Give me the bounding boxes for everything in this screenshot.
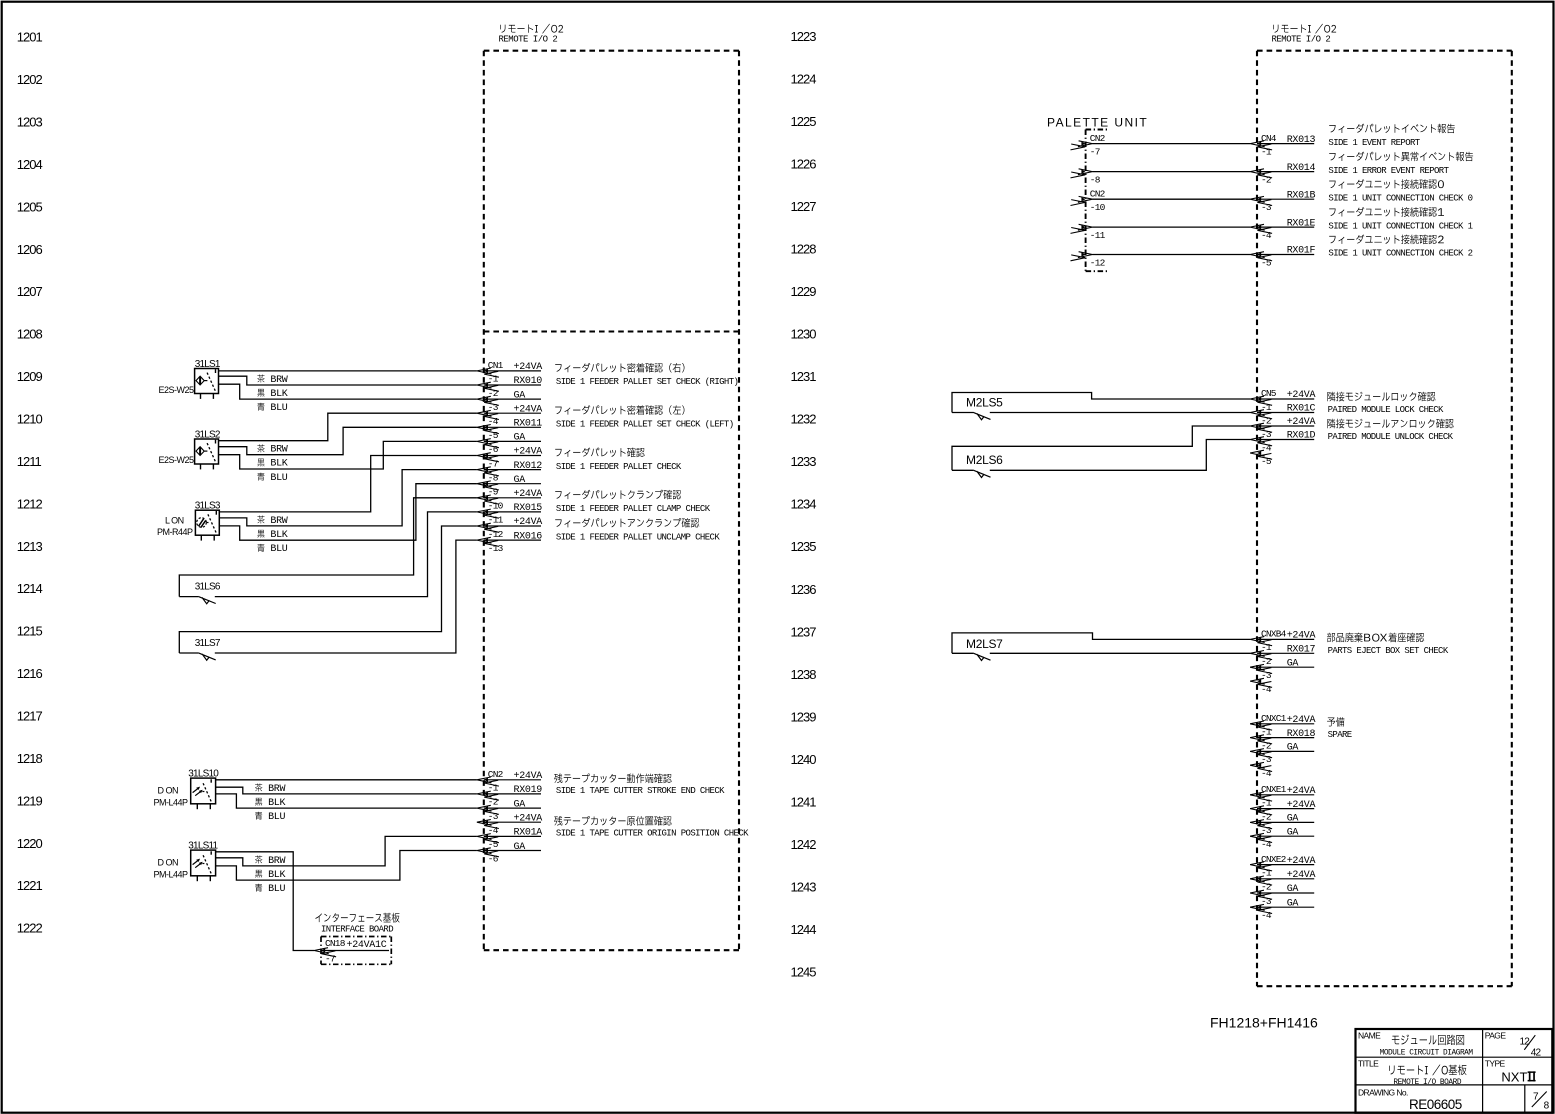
connector CNXB4 on right board bbox=[1257, 638, 1314, 640]
svg-text:MODULE CIRCUIT DIAGRAM: MODULE CIRCUIT DIAGRAM bbox=[1380, 1050, 1474, 1058]
svg-text:RX013: RX013 bbox=[1287, 135, 1316, 146]
svg-text:12: 12 bbox=[1520, 1037, 1531, 1048]
31LS1 wires to CN1 pins 1-3 bbox=[219, 370, 477, 372]
svg-text:-5: -5 bbox=[488, 839, 499, 850]
svg-text:-1: -1 bbox=[1261, 146, 1272, 157]
svg-text:RX01F: RX01F bbox=[1287, 246, 1316, 257]
svg-text:GA: GA bbox=[1287, 743, 1299, 754]
svg-text:SIDE 1 UNIT CONNECTION CHECK 1: SIDE 1 UNIT CONNECTION CHECK 1 bbox=[1328, 221, 1472, 231]
svg-text:-3: -3 bbox=[1261, 202, 1272, 213]
CN2 signal descriptions bbox=[554, 774, 562, 783]
svg-text:-10: -10 bbox=[1090, 202, 1106, 213]
svg-text:+24VA: +24VA bbox=[514, 814, 543, 825]
connector CNXE2 on right board bbox=[1257, 864, 1314, 866]
svg-text:-3: -3 bbox=[488, 811, 499, 822]
svg-text:+24VA: +24VA bbox=[1287, 800, 1316, 811]
svg-text:1205: 1205 bbox=[17, 199, 43, 214]
svg-text:D ON: D ON bbox=[158, 857, 179, 867]
remote I/O 2 board box (left) bbox=[484, 50, 739, 52]
svg-text:DRAWING No.: DRAWING No. bbox=[1358, 1088, 1408, 1098]
svg-text:1211: 1211 bbox=[17, 454, 42, 469]
svg-text:-2: -2 bbox=[1261, 811, 1272, 822]
wires palette unit to CN4 bbox=[1093, 143, 1251, 145]
svg-text:RX011: RX011 bbox=[514, 419, 543, 430]
svg-text:BLU: BLU bbox=[270, 473, 287, 484]
svg-text:-1: -1 bbox=[488, 783, 499, 794]
svg-text:1228: 1228 bbox=[791, 242, 817, 257]
connector CN2 on left board bbox=[484, 779, 541, 781]
svg-text:PM-R44P: PM-R44P bbox=[157, 527, 193, 537]
31LS11 wires: BRW to interface board, BLK/BLU to CN2 pins 5-6 bbox=[216, 852, 315, 951]
svg-text:FH1218+FH1416: FH1218+FH1416 bbox=[1210, 1014, 1318, 1030]
CN5 signal descriptions bbox=[1327, 392, 1335, 402]
svg-text:SIDE 1 TAPE CUTTER ORIGIN POSI: SIDE 1 TAPE CUTTER ORIGIN POSITION CHECK bbox=[556, 829, 749, 839]
svg-text:-4: -4 bbox=[488, 825, 499, 836]
svg-text:RX01C: RX01C bbox=[1287, 404, 1316, 415]
svg-text:+24VA: +24VA bbox=[514, 404, 543, 415]
svg-text:-3: -3 bbox=[1261, 429, 1272, 440]
svg-text:-2: -2 bbox=[1261, 174, 1272, 185]
svg-text:REMOTE I/O 2: REMOTE I/O 2 bbox=[1272, 35, 1331, 45]
31LS10 wires to CN2 pins 1-3 bbox=[216, 779, 477, 781]
svg-text:CN5: CN5 bbox=[1261, 388, 1277, 399]
svg-text:1224: 1224 bbox=[791, 72, 817, 87]
svg-text:+24VA: +24VA bbox=[514, 489, 543, 500]
svg-text:GA: GA bbox=[514, 475, 526, 486]
svg-text:42: 42 bbox=[1531, 1047, 1542, 1058]
right box title: remote I/O 2 bbox=[1273, 25, 1278, 33]
svg-text:1207: 1207 bbox=[17, 284, 43, 299]
svg-text:PAGE: PAGE bbox=[1485, 1030, 1507, 1040]
svg-text:1222: 1222 bbox=[17, 921, 43, 936]
svg-text:GA: GA bbox=[1287, 827, 1299, 838]
svg-text:RX016: RX016 bbox=[514, 531, 543, 542]
svg-text:M2LS7: M2LS7 bbox=[966, 637, 1003, 651]
svg-text:-1: -1 bbox=[1261, 798, 1272, 809]
svg-text:+24VA: +24VA bbox=[1287, 870, 1316, 881]
svg-text:1239: 1239 bbox=[791, 709, 817, 724]
svg-text:BLK: BLK bbox=[268, 870, 285, 881]
svg-text:GA: GA bbox=[514, 390, 526, 401]
svg-text:1227: 1227 bbox=[791, 199, 817, 214]
svg-text:RX012: RX012 bbox=[514, 461, 543, 472]
svg-text:1219: 1219 bbox=[17, 793, 43, 808]
svg-text:-10: -10 bbox=[488, 501, 504, 512]
svg-text:+24VA: +24VA bbox=[514, 517, 543, 528]
31LS7 wires to CN1 pins 12-13 bbox=[179, 526, 477, 653]
svg-text:+24VA: +24VA bbox=[1287, 715, 1316, 726]
svg-text:1215: 1215 bbox=[17, 624, 43, 639]
svg-text:CN4: CN4 bbox=[1261, 133, 1277, 144]
svg-text:SIDE 1 FEEDER PALLET CLAMP CHE: SIDE 1 FEEDER PALLET CLAMP CHECK bbox=[556, 504, 711, 514]
svg-text:CNXE2: CNXE2 bbox=[1261, 854, 1287, 865]
svg-text:TITLE: TITLE bbox=[1358, 1058, 1379, 1068]
svg-text:1216: 1216 bbox=[17, 666, 43, 681]
svg-text:-3: -3 bbox=[1261, 896, 1272, 907]
svg-text:NXT: NXT bbox=[1501, 1069, 1527, 1084]
svg-text:+24VA: +24VA bbox=[1287, 786, 1316, 797]
svg-text:1241: 1241 bbox=[791, 794, 817, 809]
svg-text:GA: GA bbox=[1287, 884, 1299, 895]
svg-text:BLK: BLK bbox=[268, 798, 285, 809]
svg-text:-2: -2 bbox=[1261, 882, 1272, 893]
svg-text:GA: GA bbox=[514, 799, 526, 810]
svg-text:-4: -4 bbox=[1261, 910, 1272, 921]
connector CNXE1 on right board bbox=[1257, 794, 1314, 796]
svg-text:-1: -1 bbox=[488, 374, 499, 385]
svg-text:CN1: CN1 bbox=[488, 360, 504, 371]
svg-text:+24VA: +24VA bbox=[1287, 631, 1316, 642]
CN1 signal descriptions bbox=[555, 364, 561, 372]
svg-text:BRW: BRW bbox=[270, 516, 287, 527]
svg-text:NAME: NAME bbox=[1358, 1030, 1381, 1040]
svg-text:1202: 1202 bbox=[17, 72, 43, 87]
svg-text:-8: -8 bbox=[488, 472, 499, 483]
svg-text:BLU: BLU bbox=[270, 544, 287, 555]
svg-text:SIDE 1 FEEDER PALLET UNCLAMP C: SIDE 1 FEEDER PALLET UNCLAMP CHECK bbox=[556, 532, 720, 542]
svg-text:1226: 1226 bbox=[791, 157, 817, 172]
svg-text:-7: -7 bbox=[488, 458, 498, 469]
svg-text:D ON: D ON bbox=[158, 785, 179, 795]
svg-text:SIDE 1 EVENT REPORT: SIDE 1 EVENT REPORT bbox=[1328, 138, 1420, 148]
svg-text:CNXE1: CNXE1 bbox=[1261, 784, 1287, 795]
svg-text:BLU: BLU bbox=[268, 884, 285, 895]
svg-text:SIDE 1 FEEDER PALLET CHECK: SIDE 1 FEEDER PALLET CHECK bbox=[556, 462, 682, 472]
svg-text:+24VA1C: +24VA1C bbox=[347, 940, 387, 951]
svg-text:31LS7: 31LS7 bbox=[195, 638, 221, 649]
31LS11 wire color labels bbox=[255, 855, 262, 863]
svg-text:-2: -2 bbox=[1261, 415, 1272, 426]
svg-text:PARTS EJECT BOX SET CHECK: PARTS EJECT BOX SET CHECK bbox=[1328, 646, 1449, 656]
title block table bbox=[1356, 1029, 1553, 1113]
svg-text:-7: -7 bbox=[1090, 146, 1100, 157]
connector CNXC1 on right board (spare) bbox=[1257, 723, 1314, 725]
svg-text:+24VA: +24VA bbox=[514, 362, 543, 373]
svg-text:BLU: BLU bbox=[268, 812, 285, 823]
svg-text:+24VA: +24VA bbox=[1287, 417, 1316, 428]
connector CN1 on left board bbox=[484, 370, 541, 372]
svg-text:PM-L44P: PM-L44P bbox=[154, 797, 189, 807]
svg-text:1231: 1231 bbox=[791, 369, 817, 384]
svg-text:1242: 1242 bbox=[791, 837, 817, 852]
svg-text:PM-L44P: PM-L44P bbox=[154, 869, 189, 879]
svg-text:SIDE 1 FEEDER PALLET SET CHECK: SIDE 1 FEEDER PALLET SET CHECK (RIGHT) bbox=[556, 377, 738, 387]
svg-text:1223: 1223 bbox=[791, 29, 817, 44]
svg-text:-8: -8 bbox=[1090, 174, 1101, 185]
svg-text:BRW: BRW bbox=[268, 784, 285, 795]
svg-text:-3: -3 bbox=[488, 402, 499, 413]
31LS1 wire color labels bbox=[257, 375, 264, 383]
svg-text:1209: 1209 bbox=[17, 369, 43, 384]
M2LS5 contact blade bbox=[973, 412, 991, 419]
svg-text:-4: -4 bbox=[1261, 442, 1272, 453]
svg-text:1217: 1217 bbox=[17, 709, 43, 724]
svg-text:RX019: RX019 bbox=[514, 785, 543, 796]
svg-text:PAIRED MODULE UNLOCK CHECK: PAIRED MODULE UNLOCK CHECK bbox=[1328, 432, 1454, 442]
svg-text:GA: GA bbox=[514, 433, 526, 444]
svg-text:RX014: RX014 bbox=[1287, 163, 1316, 174]
CN4 signal descriptions bbox=[1329, 125, 1335, 133]
svg-text:1236: 1236 bbox=[791, 582, 817, 597]
svg-text:-4: -4 bbox=[488, 416, 499, 427]
svg-text:-3: -3 bbox=[1261, 754, 1272, 765]
svg-text:-3: -3 bbox=[1261, 825, 1272, 836]
svg-text:RX018: RX018 bbox=[1287, 729, 1316, 740]
svg-text:1201: 1201 bbox=[17, 30, 43, 45]
svg-text:-5: -5 bbox=[488, 430, 499, 441]
svg-text:-4: -4 bbox=[1261, 230, 1272, 241]
svg-text:PAIRED MODULE LOCK CHECK: PAIRED MODULE LOCK CHECK bbox=[1328, 405, 1444, 415]
svg-text:1212: 1212 bbox=[17, 496, 43, 511]
svg-text:L ON: L ON bbox=[165, 516, 184, 526]
svg-text:-2: -2 bbox=[1261, 656, 1272, 667]
svg-text:BRW: BRW bbox=[270, 375, 287, 386]
svg-text:+24VA: +24VA bbox=[514, 447, 543, 458]
connector CN18 on interface board bbox=[321, 950, 389, 952]
svg-text:1206: 1206 bbox=[17, 242, 43, 257]
svg-text:-5: -5 bbox=[1261, 456, 1272, 467]
svg-text:E2S-W25: E2S-W25 bbox=[159, 455, 195, 465]
svg-text:-7: -7 bbox=[325, 954, 335, 965]
svg-text:PALETTE UNIT: PALETTE UNIT bbox=[1047, 116, 1148, 130]
31LS2 wires to CN1 pins 4-6 bbox=[219, 413, 477, 441]
svg-text:REMOTE I/O 2: REMOTE I/O 2 bbox=[499, 35, 558, 45]
svg-text:CNXC1: CNXC1 bbox=[1261, 713, 1287, 724]
svg-text:1243: 1243 bbox=[791, 879, 817, 894]
svg-text:RX01D: RX01D bbox=[1287, 431, 1316, 442]
svg-text:CN2: CN2 bbox=[1090, 188, 1106, 199]
svg-text:CN2: CN2 bbox=[488, 769, 504, 780]
31LS7 contact blade bbox=[198, 653, 216, 660]
31LS6 wires to CN1 pins 10-11 bbox=[179, 498, 477, 597]
svg-text:GA: GA bbox=[514, 842, 526, 853]
svg-text:-1: -1 bbox=[1261, 642, 1272, 653]
interface board labels bbox=[315, 913, 322, 922]
svg-text:-13: -13 bbox=[488, 543, 504, 554]
svg-text:GA: GA bbox=[1287, 814, 1299, 825]
svg-text:-2: -2 bbox=[1261, 740, 1272, 751]
svg-text:M2LS6: M2LS6 bbox=[966, 453, 1003, 467]
svg-text:1230: 1230 bbox=[791, 327, 817, 342]
svg-text:RX01E: RX01E bbox=[1287, 218, 1316, 229]
svg-text:1245: 1245 bbox=[791, 964, 817, 979]
svg-text:-3: -3 bbox=[1261, 670, 1272, 681]
svg-text:-6: -6 bbox=[488, 853, 499, 864]
svg-text:1240: 1240 bbox=[791, 752, 817, 767]
svg-text:BLK: BLK bbox=[270, 389, 287, 400]
svg-text:1234: 1234 bbox=[791, 497, 817, 512]
svg-text:-2: -2 bbox=[488, 388, 499, 399]
svg-text:RX017: RX017 bbox=[1287, 645, 1316, 656]
svg-text:-5: -5 bbox=[1261, 257, 1272, 268]
interface board box bbox=[321, 936, 391, 938]
svg-text:+24VA: +24VA bbox=[514, 771, 543, 782]
svg-text:-9: -9 bbox=[488, 487, 499, 498]
svg-text:1233: 1233 bbox=[791, 454, 817, 469]
svg-text:BLK: BLK bbox=[270, 459, 287, 470]
svg-text:RX015: RX015 bbox=[514, 503, 543, 514]
svg-text:RX010: RX010 bbox=[514, 376, 543, 387]
svg-text:1232: 1232 bbox=[791, 412, 817, 427]
svg-text:31LS6: 31LS6 bbox=[195, 581, 221, 592]
svg-text:SIDE 1 ERROR EVENT REPORT: SIDE 1 ERROR EVENT REPORT bbox=[1328, 166, 1449, 176]
svg-text:CN18: CN18 bbox=[325, 938, 346, 949]
svg-text:BRW: BRW bbox=[270, 445, 287, 456]
svg-text:-11: -11 bbox=[1090, 230, 1106, 241]
31LS2 wire color labels bbox=[257, 444, 264, 452]
svg-text:-1: -1 bbox=[1261, 727, 1272, 738]
svg-text:SIDE 1 FEEDER PALLET SET CHECK: SIDE 1 FEEDER PALLET SET CHECK (LEFT) bbox=[556, 420, 734, 430]
palette unit connector bracket bbox=[1085, 130, 1087, 272]
svg-text:SIDE 1 UNIT CONNECTION CHECK 0: SIDE 1 UNIT CONNECTION CHECK 0 bbox=[1328, 193, 1472, 203]
svg-text:-12: -12 bbox=[1090, 257, 1106, 268]
svg-text:RX01A: RX01A bbox=[514, 828, 543, 839]
svg-text:BLU: BLU bbox=[270, 403, 287, 414]
svg-text:1225: 1225 bbox=[791, 114, 817, 129]
svg-text:1210: 1210 bbox=[17, 412, 43, 427]
svg-text:BRW: BRW bbox=[268, 856, 285, 867]
svg-text:-4: -4 bbox=[1261, 768, 1272, 779]
svg-text:SIDE 1 TAPE CUTTER STROKE END: SIDE 1 TAPE CUTTER STROKE END CHECK bbox=[556, 786, 725, 796]
M2LS7 contact blade bbox=[973, 653, 991, 660]
31LS3 wire color labels bbox=[257, 516, 264, 524]
svg-text:CNXB4: CNXB4 bbox=[1261, 629, 1287, 640]
svg-text:-11: -11 bbox=[488, 515, 504, 526]
svg-text:-4: -4 bbox=[1261, 684, 1272, 695]
remote I/O 2 board box (right) bbox=[1257, 50, 1512, 52]
31LS10 wire color labels bbox=[255, 783, 262, 791]
svg-text:BLK: BLK bbox=[270, 530, 287, 541]
svg-text:RE06605: RE06605 bbox=[1409, 1097, 1462, 1112]
svg-text:M2LS5: M2LS5 bbox=[966, 396, 1003, 410]
svg-text:SIDE 1 UNIT CONNECTION CHECK 2: SIDE 1 UNIT CONNECTION CHECK 2 bbox=[1328, 249, 1472, 259]
svg-text:CN2: CN2 bbox=[1090, 133, 1106, 144]
svg-text:-2: -2 bbox=[488, 797, 499, 808]
svg-text:1229: 1229 bbox=[791, 284, 817, 299]
svg-text:+24VA: +24VA bbox=[1287, 856, 1316, 867]
svg-text:RX01B: RX01B bbox=[1287, 190, 1316, 201]
svg-text:-1: -1 bbox=[1261, 867, 1272, 878]
CNXB4 signal description bbox=[1327, 633, 1335, 642]
svg-text:1213: 1213 bbox=[17, 539, 43, 554]
svg-text:+24VA: +24VA bbox=[1287, 390, 1316, 401]
svg-text:E2S-W25: E2S-W25 bbox=[159, 385, 195, 395]
svg-text:-6: -6 bbox=[488, 444, 499, 455]
svg-text:-12: -12 bbox=[488, 529, 504, 540]
svg-text:INTERFACE BOARD: INTERFACE BOARD bbox=[321, 924, 393, 934]
svg-text:REMOTE I/O BOARD: REMOTE I/O BOARD bbox=[1393, 1079, 1461, 1087]
CNXC1 description: spare bbox=[1327, 718, 1335, 727]
svg-text:SPARE: SPARE bbox=[1328, 730, 1352, 740]
svg-text:1244: 1244 bbox=[791, 922, 817, 937]
svg-text:1203: 1203 bbox=[17, 115, 43, 130]
svg-text:GA: GA bbox=[1287, 898, 1299, 909]
svg-text:1204: 1204 bbox=[17, 157, 43, 172]
svg-text:-4: -4 bbox=[1261, 839, 1272, 850]
left box title: remote I/O 2 bbox=[500, 25, 505, 33]
svg-text:1221: 1221 bbox=[17, 878, 43, 893]
svg-text:1208: 1208 bbox=[17, 327, 43, 342]
31LS6 contact blade bbox=[198, 596, 216, 603]
connector CN5 on right board bbox=[1257, 398, 1314, 400]
svg-text:1214: 1214 bbox=[17, 581, 43, 596]
svg-text:1237: 1237 bbox=[791, 624, 817, 639]
svg-text:1218: 1218 bbox=[17, 751, 43, 766]
svg-text:1220: 1220 bbox=[17, 836, 43, 851]
connector CN4 on right board bbox=[1257, 143, 1314, 145]
M2LS6 contact blade bbox=[973, 470, 991, 477]
svg-text:TYPE: TYPE bbox=[1485, 1058, 1506, 1068]
svg-text:1238: 1238 bbox=[791, 667, 817, 682]
svg-text:1235: 1235 bbox=[791, 539, 817, 554]
svg-text:GA: GA bbox=[1287, 658, 1299, 669]
31LS3 wires to CN1 pins 7-9 bbox=[219, 456, 477, 512]
svg-text:-1: -1 bbox=[1261, 402, 1272, 413]
